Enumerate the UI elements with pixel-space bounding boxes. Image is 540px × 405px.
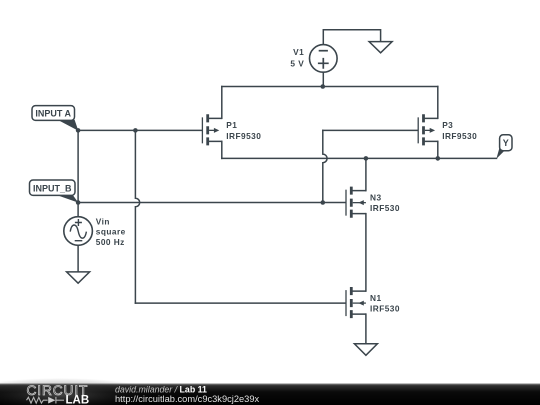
node junction dot INPUT_B	[76, 200, 81, 205]
ground top	[369, 42, 392, 53]
node flag Y	[496, 135, 512, 159]
transistor N1	[346, 287, 400, 318]
wire N3 drain to output	[365, 158, 367, 190]
svg-text:Y: Y	[503, 138, 509, 148]
svg-text:INPUT_B: INPUT_B	[33, 184, 72, 194]
wire P3 source to output	[437, 141, 439, 158]
svg-text:IRF530: IRF530	[370, 304, 400, 314]
svg-text:5 V: 5 V	[290, 58, 304, 68]
node junction dot B branch	[321, 200, 326, 205]
voltage source Vin	[64, 216, 126, 246]
wire N1 gate horizontal	[135, 302, 345, 304]
node junction dot VDD	[321, 84, 326, 89]
footer bar	[0, 378, 540, 405]
wire Vin to ground	[77, 245, 79, 272]
wire P3 gate vertical with hop	[323, 130, 327, 202]
ground Vin	[67, 272, 90, 283]
node junction dot INPUT A	[76, 128, 81, 133]
wire output Y rail	[222, 157, 497, 159]
transistor P1	[202, 114, 261, 145]
node junction dot N3 drain	[364, 156, 369, 161]
svg-text:IRF530: IRF530	[370, 203, 400, 213]
wire P1 source to output	[221, 141, 223, 158]
wire INPUT_B to N3 gate	[78, 202, 345, 204]
svg-text:P3: P3	[442, 120, 453, 130]
svg-text:V1: V1	[293, 47, 304, 57]
wire INPUT_B to Vin	[77, 203, 79, 217]
wire INPUT A vertical to N1 gate with hop	[135, 130, 139, 303]
svg-text:IRF9530: IRF9530	[442, 131, 477, 141]
svg-text:500 Hz: 500 Hz	[96, 237, 125, 247]
wire N1 source to ground	[365, 314, 367, 344]
wire INPUT A to INPUT_B vertical	[77, 130, 79, 202]
transistor N3	[346, 187, 400, 218]
wire V1 top to ground	[323, 30, 380, 45]
svg-text:Vin: Vin	[96, 216, 110, 226]
svg-text:LAB: LAB	[66, 394, 90, 405]
footer logo glyph	[27, 397, 65, 404]
ground N1	[354, 344, 377, 356]
svg-text:square: square	[96, 227, 126, 237]
svg-text:INPUT A: INPUT A	[35, 109, 71, 119]
wire P3 gate horizontal	[323, 129, 418, 131]
svg-text:P1: P1	[226, 120, 237, 130]
wire N3 source to N1 drain	[365, 214, 367, 291]
voltage source V1	[290, 45, 337, 73]
wire INPUT A to P1 gate	[78, 129, 202, 131]
transistor P3	[418, 114, 477, 145]
node junction dot A branch	[133, 128, 138, 133]
svg-text:http://circuitlab.com/c9c3k9cj: http://circuitlab.com/c9c3k9cj2e39x	[115, 394, 260, 404]
wire VDD rail	[222, 86, 438, 88]
svg-text:N1: N1	[370, 293, 382, 303]
wire P3 drain to VDD	[437, 87, 439, 119]
svg-text:N3: N3	[370, 192, 382, 202]
wire P1 drain to VDD	[221, 87, 223, 119]
svg-text:IRF9530: IRF9530	[226, 131, 261, 141]
node flag INPUT A	[32, 106, 78, 131]
wire V1 bottom to VDD rail	[322, 72, 324, 86]
node junction dot P3 source	[436, 156, 441, 161]
node flag INPUT_B	[30, 180, 79, 203]
